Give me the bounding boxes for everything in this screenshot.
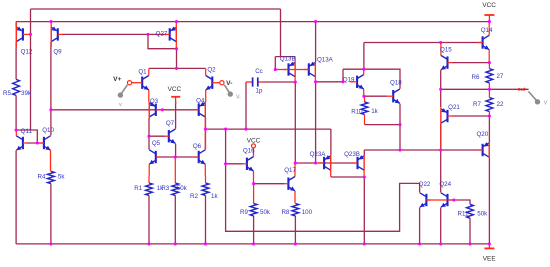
wire Q27 base-collector tie: [148, 34, 177, 48]
svg-text:Q9: Q9: [53, 48, 62, 55]
VCC power symbol top-right: [484, 15, 494, 22]
wire Q16 base column: [226, 129, 420, 231]
wire VCC rail: [16, 21, 489, 23]
VEE power symbol: [484, 244, 494, 249]
svg-text:1p: 1p: [256, 88, 263, 95]
wire R8 bottom: [294, 216, 296, 244]
transistor Q20: [478, 142, 489, 157]
junction: [363, 175, 366, 178]
svg-text:Q27: Q27: [156, 31, 168, 38]
wire Q22E drop: [419, 208, 421, 244]
svg-text:R9: R9: [240, 209, 248, 216]
junction: [294, 80, 297, 83]
svg-text:V-: V-: [226, 80, 232, 87]
junction: [294, 242, 297, 245]
svg-text:1k: 1k: [211, 193, 218, 200]
svg-text:VEE: VEE: [483, 255, 496, 262]
wire Q23C drop: [363, 177, 365, 244]
svg-text:Q21: Q21: [448, 104, 460, 111]
svg-text:100: 100: [302, 209, 313, 216]
svg-text:Q3: Q3: [150, 98, 159, 105]
wire Cc left drop: [245, 82, 247, 129]
wire Q9-Q27 base: [62, 33, 165, 35]
wire Q24E drop: [440, 208, 442, 244]
svg-text:R4: R4: [38, 174, 46, 181]
wire out right: [489, 88, 528, 90]
wire W1 top: [31, 8, 281, 10]
junction: [439, 41, 442, 44]
junction: [314, 20, 317, 23]
transistor Q14: [478, 22, 489, 63]
transistor Q11: [16, 130, 27, 151]
wire 2nd stage rail: [206, 128, 331, 130]
svg-text:Q13B: Q13B: [280, 56, 296, 63]
junction: [174, 242, 177, 245]
junction: [488, 242, 491, 245]
transistor Q23A: [318, 155, 331, 177]
svg-text:R8: R8: [281, 209, 289, 216]
wire Q9C-Q10C column: [50, 42, 52, 135]
resistor R5: [13, 79, 20, 95]
svg-text:Q6: Q6: [193, 143, 202, 150]
junction: [224, 128, 227, 131]
junction: [15, 128, 18, 131]
wire R5 bottom: [15, 95, 17, 130]
wire Q13B base drop: [274, 57, 276, 70]
wire R4 bottom: [50, 184, 52, 244]
wire Q23A emitter drop: [330, 129, 332, 155]
junction: [488, 20, 491, 23]
wire Q7 base branch: [149, 135, 165, 137]
transistor Q12: [16, 22, 30, 48]
wire Q27C down: [176, 49, 178, 69]
wire Q19E-Q18B: [364, 95, 387, 97]
wire Q16 base stub wire: [226, 163, 243, 165]
svg-text:R3: R3: [161, 185, 169, 192]
junction: [49, 242, 52, 245]
svg-text:50k: 50k: [260, 209, 271, 216]
svg-text:Q14: Q14: [481, 27, 493, 34]
wire Q21 base: [452, 115, 489, 117]
junction: [36, 141, 39, 144]
wire Q23B emitter drop: [363, 150, 365, 155]
wire riser to Q14 base rail: [363, 43, 365, 70]
transistor Q13B: [283, 57, 295, 82]
wire Q13A-Q19 branch: [316, 81, 343, 83]
junction: [252, 242, 255, 245]
svg-text:50k: 50k: [477, 211, 488, 218]
svg-text:V+: V+: [113, 76, 121, 83]
wire R3 bottom: [174, 195, 176, 244]
junction: [488, 88, 491, 91]
junction: [488, 114, 491, 117]
junction: [175, 47, 178, 50]
junction: [398, 123, 401, 126]
wire Q13 base rail: [275, 69, 309, 71]
transistor Q18: [388, 89, 400, 104]
wire R10 bottom: [365, 124, 401, 126]
junction: [314, 161, 317, 164]
svg-text:50k: 50k: [177, 185, 188, 192]
junction: [488, 61, 491, 64]
svg-text:VCC: VCC: [247, 138, 261, 145]
svg-text:R6: R6: [472, 74, 480, 81]
transistor Q7: [165, 129, 175, 144]
svg-text:Q18: Q18: [390, 80, 402, 87]
wire W1 left drop: [30, 9, 32, 130]
junction: [418, 242, 421, 245]
svg-text:Q12: Q12: [21, 48, 33, 55]
junction: [175, 20, 178, 23]
transistor Q21: [441, 107, 453, 150]
svg-text:Q19: Q19: [343, 77, 355, 84]
junction: [274, 68, 277, 71]
transistor Q13A: [304, 62, 315, 82]
svg-text:R5: R5: [3, 90, 11, 97]
svg-text:R2: R2: [190, 193, 198, 200]
junction: [174, 155, 177, 158]
svg-text:Q10: Q10: [42, 127, 54, 134]
capacitor Cc: [246, 77, 263, 86]
wire Q14 base rail: [364, 42, 483, 44]
voltage probe V-: [224, 85, 241, 101]
transistor Q3: [149, 102, 162, 120]
wire Q22-Q24 base to R11: [447, 200, 470, 204]
wire Q15E-Q21E: [440, 70, 442, 107]
svg-text:Q13A: Q13A: [317, 57, 334, 64]
junction: [294, 161, 297, 164]
svg-text:22: 22: [497, 101, 504, 108]
input terminal V+: [127, 81, 138, 85]
svg-text:Q7: Q7: [166, 120, 175, 127]
transistor Q15: [441, 43, 453, 71]
wire Q1-Q2 collector rail: [149, 67, 206, 69]
resistor R10: [361, 96, 368, 124]
input terminal V-: [216, 81, 224, 85]
wire W1 right drop: [280, 9, 282, 57]
wire Q11E drop: [15, 151, 17, 244]
transistor Q6: [195, 129, 206, 176]
junction: [398, 148, 401, 151]
svg-text:VCC: VCC: [482, 2, 496, 9]
transistor Q4: [195, 102, 206, 129]
wire Q21C-Q24C column: [440, 124, 442, 193]
junction: [244, 128, 247, 131]
transistor Q22: [420, 193, 431, 208]
svg-text:V: V: [544, 101, 548, 107]
junction: [341, 80, 344, 83]
svg-text:Q22: Q22: [419, 181, 431, 188]
junction: [314, 80, 317, 83]
resistor R2: [202, 176, 209, 195]
junction: [362, 68, 365, 71]
junction: [147, 135, 150, 138]
svg-text:Q15: Q15: [440, 47, 452, 54]
wire Q20E: [488, 116, 490, 142]
junction: [439, 242, 442, 245]
wire Q23 base rail: [295, 162, 357, 164]
junction: [204, 128, 207, 131]
wire R5 top: [15, 42, 17, 79]
wire Q4C-Q6C column: [205, 117, 207, 149]
transistor Q2: [206, 68, 217, 102]
wire Q23 collectors: [331, 176, 364, 178]
svg-text:Q1: Q1: [138, 68, 147, 75]
junction: [49, 108, 52, 111]
svg-text:R7: R7: [473, 101, 481, 108]
wire out node: [441, 88, 490, 90]
junction: [204, 242, 207, 245]
VCC bubble Q16: [252, 144, 256, 148]
junction: [147, 242, 150, 245]
wire Q13B emitter feed: [275, 56, 295, 58]
transistor Q9: [51, 22, 63, 47]
junction: [452, 198, 455, 201]
transistor Q10: [40, 136, 51, 172]
svg-text:out: out: [518, 87, 526, 93]
wire Q13A emitter: [315, 22, 317, 62]
voltage probe V+: [118, 85, 128, 108]
svg-text:Q16: Q16: [243, 148, 255, 155]
junction: [161, 108, 164, 111]
junction: [146, 33, 149, 36]
svg-text:R11: R11: [458, 211, 469, 218]
svg-text:Q2: Q2: [207, 67, 216, 74]
svg-text:Cc: Cc: [255, 68, 263, 75]
wire Q18E down: [399, 104, 401, 150]
resistor R4: [48, 171, 55, 183]
resistor R7: [486, 89, 493, 116]
wire Q20 base rail: [364, 149, 482, 151]
transistor Q19: [350, 69, 364, 96]
transistor Q23B: [352, 155, 364, 177]
wire Cc right: [263, 81, 295, 83]
junction: [439, 88, 442, 91]
svg-text:V-: V-: [236, 95, 241, 101]
wire Q12E corner: [15, 22, 17, 27]
wire Q5-Q6 base rail: [156, 156, 199, 158]
junction: [49, 20, 52, 23]
resistor R8: [292, 203, 299, 216]
wire Q7E down: [175, 144, 177, 157]
junction: [29, 33, 32, 36]
svg-text:1k: 1k: [371, 108, 378, 115]
resistor R9: [250, 184, 257, 216]
wire Q22-Q24 base tie: [426, 199, 447, 201]
wire Q13A collector column: [315, 82, 317, 163]
junction: [439, 148, 442, 151]
wire Q19 base riser: [342, 69, 344, 82]
junction: [252, 182, 255, 185]
resistor R3: [172, 157, 179, 195]
transistor Q16: [243, 148, 254, 184]
svg-text:Q23A: Q23A: [310, 151, 327, 158]
junction: [175, 67, 178, 70]
svg-text:Q20: Q20: [476, 131, 488, 138]
svg-text:Q23B: Q23B: [344, 151, 360, 158]
wire Q11 CB tie: [16, 130, 37, 143]
transistor Q17: [284, 163, 295, 203]
transistor Q24: [441, 193, 453, 208]
wire R1 bottom: [148, 195, 150, 244]
wire Q20C drop: [488, 158, 490, 244]
wire VEE rail: [16, 243, 489, 245]
svg-text:R10: R10: [351, 109, 363, 116]
wire Q16E-Q17B: [254, 183, 285, 185]
wire Q11-Q10 base rail: [27, 142, 44, 144]
resistor R11: [467, 204, 474, 218]
svg-text:v: v: [119, 102, 122, 108]
transistor Q27: [165, 22, 177, 49]
svg-text:39k: 39k: [21, 90, 32, 97]
junction: [224, 162, 227, 165]
svg-text:Q17: Q17: [284, 167, 296, 174]
svg-text:Q5: Q5: [152, 140, 161, 147]
wire R9 bottom: [253, 216, 255, 244]
svg-text:Q11: Q11: [21, 128, 33, 135]
svg-text:27: 27: [496, 73, 503, 80]
VCC power symbol mid: [171, 97, 180, 104]
svg-text:Q4: Q4: [196, 97, 205, 104]
wire Q15 base: [452, 62, 489, 64]
junction: [468, 242, 471, 245]
wire VCC-Q7C: [175, 101, 177, 129]
svg-text:R1: R1: [134, 185, 142, 192]
transistor Q5: [149, 149, 160, 176]
junction: [362, 95, 365, 98]
wire Q3C-Q5C column: [148, 118, 150, 149]
voltage probe out: [528, 91, 547, 106]
svg-text:Q24: Q24: [439, 181, 451, 188]
wire R2 bottom: [205, 195, 207, 244]
junction: [363, 242, 366, 245]
wire R11 bottom: [469, 218, 471, 244]
resistor R6: [486, 63, 493, 90]
svg-text:5k: 5k: [58, 174, 65, 181]
resistor R1: [146, 176, 153, 195]
svg-text:VCC: VCC: [168, 86, 182, 93]
wire input mirror rail: [51, 109, 199, 111]
wire Q13BC-Q17C column: [294, 82, 296, 163]
transistor Q1: [138, 68, 148, 102]
wire Q19-Q18 collector rail: [343, 69, 400, 88]
